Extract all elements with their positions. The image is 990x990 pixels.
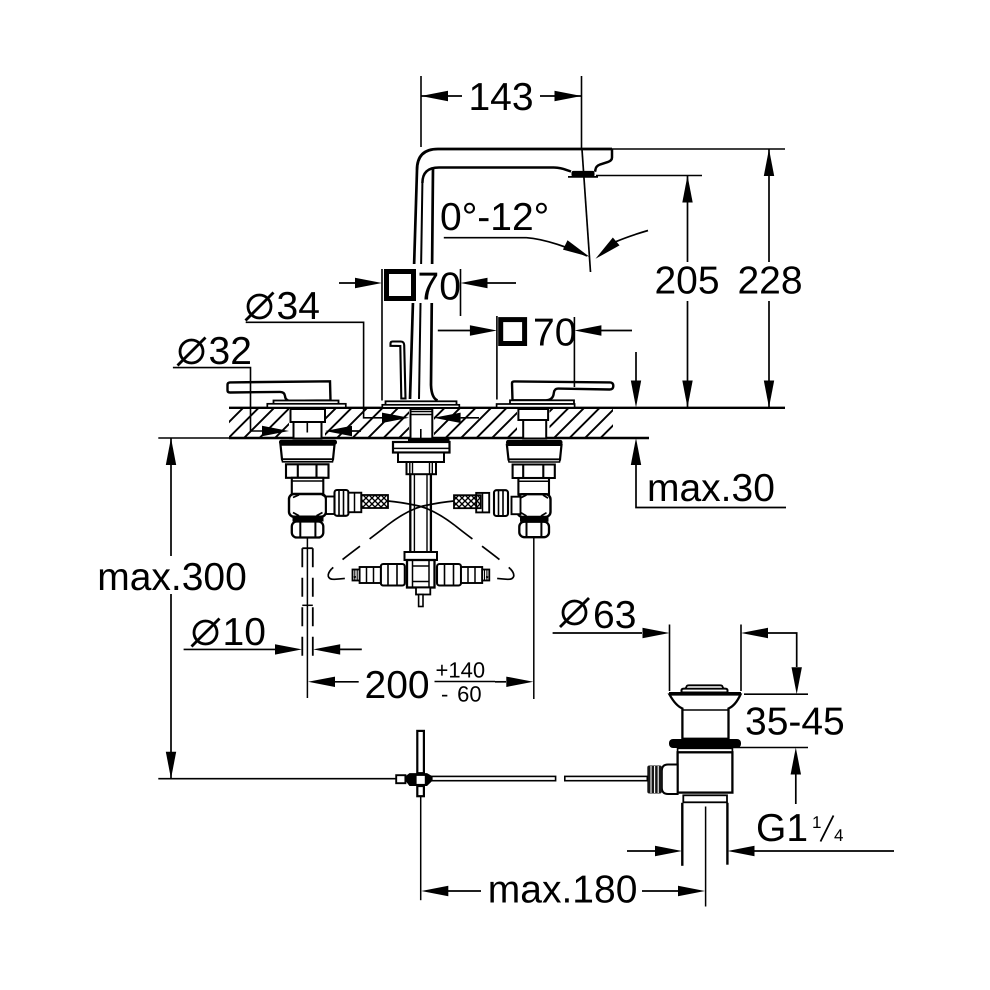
aerator dark band	[572, 171, 595, 177]
center supply tube inner lines	[414, 474, 427, 552]
left valve cylinder	[292, 478, 324, 494]
drain seal washer (black)	[669, 739, 741, 748]
drain tailpipe right wall	[726, 803, 728, 865]
right hose adapter line	[482, 493, 484, 513]
right valve elbow body	[518, 494, 551, 517]
countertop hatch segment D	[550, 409, 614, 438]
svg-text:4: 4	[834, 826, 843, 845]
hose position curve right (solid+dash)	[388, 501, 455, 526]
dim max30 bottom arrow and leader	[636, 465, 786, 508]
right valve mounting nut	[507, 445, 562, 460]
dim 143 line	[421, 95, 582, 97]
right valve bottom nut facets	[527, 522, 542, 537]
left valve elbow body	[289, 494, 326, 517]
tee right adapter	[461, 567, 482, 583]
dim G1 1/4 right line	[755, 850, 895, 852]
svg-text:10: 10	[223, 611, 266, 654]
left valve bottom nut	[292, 522, 324, 538]
left valve black band	[293, 517, 324, 522]
drain washer lip	[678, 748, 733, 752]
pop-up cross clamp center hole	[417, 776, 425, 784]
left shank centerline tick	[306, 422, 308, 433]
drain side port bulge	[662, 765, 678, 795]
svg-text:32: 32	[209, 330, 252, 373]
tee right port nut facets	[445, 564, 454, 586]
center supply tube walls	[410, 474, 431, 552]
spout column outer left contour	[410, 170, 417, 399]
dim sq70 first extension right	[460, 269, 462, 316]
dim max180 right arrow	[642, 890, 678, 892]
dim 228 line	[768, 149, 770, 408]
left shank lower through counter	[294, 422, 322, 439]
left handle lever	[228, 381, 331, 401]
center tee inner detail	[413, 560, 430, 588]
left hose adapter line	[354, 493, 356, 513]
dim O34 leader	[246, 322, 382, 418]
dim sq70 second arrows	[438, 330, 632, 332]
dim O63 right line with corner	[768, 633, 797, 667]
left valve mounting nut	[281, 445, 335, 460]
svg-text:max.30: max.30	[647, 467, 775, 510]
countertop hatch segment B	[325, 409, 409, 438]
left hose nut	[335, 490, 349, 516]
center collar thread ticks	[410, 462, 433, 474]
spout base plate lip	[382, 405, 459, 408]
svg-text:max.180: max.180	[488, 869, 638, 912]
dim 35-45 top reference line	[744, 693, 808, 695]
right valve hex adapter	[513, 465, 555, 479]
right valve centerline / 200 extension	[533, 537, 535, 699]
drain knurled adjuster knob	[647, 766, 662, 794]
spout tip contour	[595, 149, 612, 172]
tee bottom port	[416, 588, 430, 595]
spout top outer line with corner	[417, 149, 612, 170]
drain pop-up knob	[682, 689, 728, 693]
countertop bottom line	[229, 437, 649, 440]
right valve gasket (black)	[506, 440, 563, 445]
drain tailpipe left wall	[681, 803, 683, 866]
left escutcheon	[274, 401, 339, 405]
hose position curve left (solid+dash)	[387, 501, 454, 526]
svg-text:70: 70	[418, 266, 461, 309]
svg-text:1: 1	[812, 813, 821, 832]
svg-text:63: 63	[593, 594, 636, 637]
left escutcheon lip	[267, 404, 346, 408]
svg-text:G1: G1	[756, 807, 808, 850]
tee left adapter	[360, 567, 381, 583]
dim max180 line left arrow	[448, 890, 481, 892]
aerator bottom line	[568, 176, 598, 178]
drain flange neck lines	[682, 709, 728, 711]
svg-text:0°-12°: 0°-12°	[440, 196, 549, 239]
dim O10 circle symbol	[194, 621, 217, 644]
spout column inner left contour	[419, 183, 422, 399]
svg-text:228: 228	[737, 260, 802, 303]
dim 200 line left arrow	[335, 681, 359, 683]
dim 200 right arrow	[495, 681, 506, 683]
right hose nut	[494, 490, 508, 516]
right shank lower through counter	[523, 420, 546, 439]
dim 200 tolerance fraction line	[435, 681, 496, 683]
left valve outlet port	[326, 497, 337, 515]
pop-up horizontal rod segment 1	[430, 776, 556, 780]
pop-up rod knob behind spout	[391, 342, 406, 399]
dim 35-45 bottom reference line	[730, 747, 808, 749]
left valve bottom nut facets	[300, 522, 315, 537]
tee left tip	[353, 570, 360, 581]
dim O10 leader/arrows	[184, 648, 275, 650]
dim sq70 second extension right	[573, 317, 575, 387]
dim 205 top reference line	[596, 175, 702, 177]
right hose nut facets	[499, 490, 504, 516]
left valve hex adapter	[286, 464, 329, 478]
dim O34 circle symbol	[248, 295, 271, 318]
left hose nut facets	[339, 490, 344, 516]
drain body bottom band	[683, 795, 727, 802]
spout top inner line with corner	[422, 168, 554, 184]
drain knob top cap	[686, 685, 724, 688]
svg-text:35-45: 35-45	[745, 701, 845, 744]
center flange black band under counter	[408, 439, 450, 443]
spout base plate	[386, 401, 457, 405]
center flange step 2	[398, 453, 444, 463]
countertop hatch segment C	[434, 409, 517, 438]
pop-up horizontal rod segment 2	[565, 776, 648, 780]
svg-text:143: 143	[468, 76, 533, 119]
tee right tip	[482, 570, 489, 581]
angle 0-12 right arc	[616, 231, 649, 242]
dim 228 top reference line	[612, 148, 785, 150]
dim sq70 first arrows	[339, 282, 516, 284]
right valve cylinder line	[518, 480, 549, 482]
spout column right contour with base flare	[431, 168, 438, 401]
right valve nut bottom edge	[509, 460, 561, 463]
tee left port nut	[381, 564, 405, 586]
spout angle slant line	[582, 150, 591, 273]
center flange step 1	[393, 442, 450, 453]
right escutcheon	[510, 400, 574, 404]
center shank thread marks	[411, 412, 432, 415]
dim max300 bottom reference line	[158, 778, 396, 780]
pop-up cross left nut	[396, 775, 405, 783]
pop-up rod mid tick	[302, 604, 313, 606]
right valve cylinder	[518, 478, 549, 494]
tee left adapter lines	[367, 567, 374, 583]
countertop hatch segment A	[229, 409, 289, 438]
left valve elbow bevels	[293, 495, 328, 516]
spout underside slope to aerator	[554, 168, 571, 172]
drain centerline	[705, 807, 707, 907]
svg-text:+140: +140	[436, 658, 486, 683]
tee right adapter lines	[468, 567, 475, 583]
right hose adapter	[476, 493, 489, 513]
dim sq70 second extension left	[496, 316, 498, 400]
right valve black band	[520, 517, 549, 522]
left valve nut bottom edge	[282, 459, 333, 462]
right hose braided section	[454, 495, 481, 508]
pop-up rod dashed right line	[312, 548, 314, 663]
right valve outlet port	[512, 497, 521, 515]
center threaded collar	[407, 462, 437, 474]
center tee block	[407, 560, 435, 588]
drain flange body	[670, 695, 741, 739]
svg-text:max.300: max.300	[97, 556, 247, 599]
dim G1 1/4 left line	[627, 850, 655, 852]
right handle lever	[512, 381, 613, 400]
dim sq70 first extension left	[381, 269, 383, 401]
countertop top surface line	[229, 407, 785, 409]
pop-up cross lower extension line	[420, 796, 422, 900]
dim O63 left line	[553, 632, 642, 634]
pop-up cross vertical bar upper	[417, 731, 424, 773]
dim max300 top reference line	[158, 437, 229, 439]
dim 143 extension line left	[420, 76, 422, 147]
svg-text:200: 200	[365, 664, 430, 707]
left valve centerline	[306, 538, 308, 699]
left valve cylinder line	[292, 480, 324, 482]
tee bottom rod	[419, 595, 423, 607]
left hose adapter	[348, 493, 361, 513]
dim O32 leader	[173, 368, 262, 431]
center shank centerline tick	[420, 429, 422, 439]
dim O32 circle symbol	[180, 340, 203, 363]
dim max30 top arrow	[635, 352, 637, 381]
dim 143 extension line right	[581, 76, 583, 149]
center shank through counter	[411, 409, 433, 439]
svg-text:- 60: - 60	[441, 682, 482, 707]
svg-text:205: 205	[654, 260, 719, 303]
dim sq70 second: square symbol	[501, 320, 525, 344]
drain flange top line	[669, 692, 741, 695]
pop-up rod dashed (O10) top cap	[302, 547, 313, 549]
left valve gasket (black)	[279, 440, 337, 445]
tee left port nut facets	[388, 564, 397, 586]
dim 35-45 bottom arrow	[795, 775, 797, 805]
pop-up rod dashed left line	[301, 548, 303, 663]
svg-text:70: 70	[533, 312, 576, 355]
right valve bottom nut	[519, 522, 549, 538]
left shank upper through counter	[291, 409, 326, 422]
dim O32 right arrow	[352, 430, 361, 432]
dim 205 line	[687, 176, 689, 408]
center flange step1 line	[393, 447, 450, 449]
left hose braided section	[361, 495, 388, 508]
dim O34 right arrow	[461, 417, 479, 419]
right shank upper through counter	[518, 409, 548, 420]
pop-up cross vertical bar lower stub	[417, 786, 424, 796]
tee right port nut	[437, 564, 461, 586]
dim O63 circle symbol	[563, 601, 586, 624]
dim O63 extension lines	[670, 625, 742, 692]
dim sq70 first: square symbol	[380, 264, 460, 303]
center lower collar	[405, 552, 438, 560]
right escutcheon lip	[497, 404, 575, 408]
drain body	[678, 752, 733, 792]
dim max300 line	[170, 438, 172, 779]
angle 0-12 leader	[444, 237, 527, 239]
pop-up cross clamp block (dark)	[405, 773, 432, 786]
right valve elbow bevels	[521, 495, 548, 516]
